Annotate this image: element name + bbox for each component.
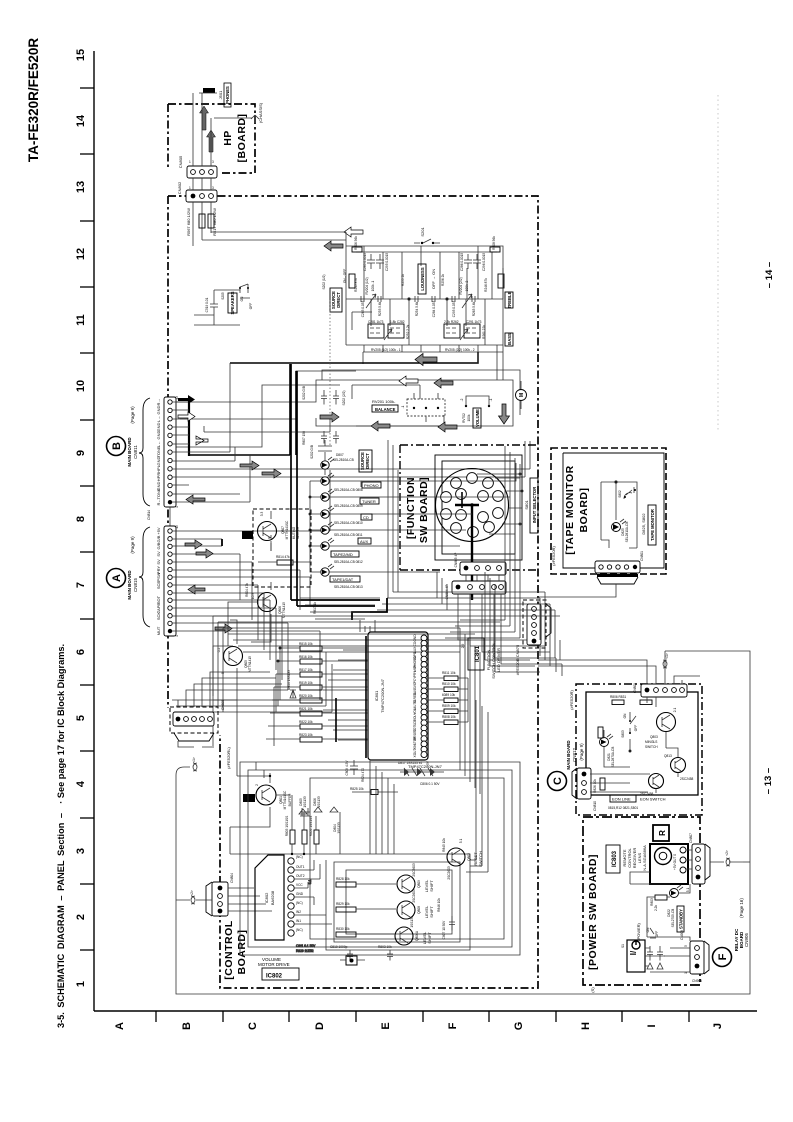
svg-text:C286 0.0015: C286 0.0015 xyxy=(460,253,464,271)
svg-text:CD: CD xyxy=(363,515,369,520)
R803 resistor xyxy=(650,895,667,911)
dotted net line vertical xyxy=(329,300,331,446)
svg-text:CN905: CN905 xyxy=(744,933,749,948)
svg-text:PHONES: PHONES xyxy=(225,86,230,104)
svg-text:S201: S201 xyxy=(420,227,425,237)
wire tape down xyxy=(538,584,616,597)
svg-text:SEL2810A-CB 0811: SEL2810A-CB 0811 xyxy=(334,533,363,537)
arrow tone left 1 xyxy=(344,227,363,237)
svg-text:1: 1 xyxy=(189,160,191,164)
wire bundle right verticals xyxy=(213,440,560,794)
fat bus line B xyxy=(188,400,190,456)
svg-text:C293 0.033: C293 0.033 xyxy=(452,301,456,318)
svg-text:S202 G/B: S202 G/B xyxy=(302,386,306,400)
switch S201 tone xyxy=(414,227,440,245)
grid ticks left xyxy=(80,88,94,950)
connector CN805 xyxy=(178,155,217,178)
brace B xyxy=(139,398,150,506)
svg-text:STOP: STOP xyxy=(413,737,417,746)
label AUX xyxy=(334,533,371,544)
IC801 pin names xyxy=(413,634,430,767)
capacitor C285 C295 group left xyxy=(363,253,389,271)
svg-text:SCK: SCK xyxy=(156,612,161,621)
board label CONTROL BOARD xyxy=(223,920,248,979)
connector block C top xyxy=(633,683,687,697)
svg-text:R208 56k: R208 56k xyxy=(492,236,496,250)
mid bus caps resistors xyxy=(361,296,475,302)
svg-text:R830 10k: R830 10k xyxy=(336,927,350,931)
svg-text:R810 10k: R810 10k xyxy=(442,682,456,686)
svg-text:C295 0.0015: C295 0.0015 xyxy=(385,253,389,271)
grid axis horizontal line xyxy=(94,1010,757,1012)
svg-text:-2: -2 xyxy=(460,398,464,401)
svg-text:10.9: 10.9 xyxy=(251,593,255,599)
hp board outline xyxy=(168,104,255,173)
resistor R567 R517 labels xyxy=(186,208,217,236)
input selector label xyxy=(524,478,538,533)
svg-text:TAPE: TAPE xyxy=(156,603,161,613)
svg-text:(CHASSIS): (CHASSIS) xyxy=(258,102,263,123)
IC801 boxed label xyxy=(468,638,501,679)
connector CN815 on border xyxy=(515,600,551,675)
transistor LVL1 xyxy=(397,863,434,893)
svg-text:R817 10k: R817 10k xyxy=(299,668,313,672)
svg-text:TAPE MONITOR: TAPE MONITOR xyxy=(650,509,655,541)
svg-text:-1: -1 xyxy=(401,405,405,408)
transistor LVL3 xyxy=(395,916,432,945)
svg-text:AUX: AUX xyxy=(360,539,369,544)
svg-text:SV: SV xyxy=(156,559,161,565)
svg-text:STANDBY: STANDBY xyxy=(679,909,684,929)
svg-text:R828 10k: R828 10k xyxy=(336,877,350,881)
wires IC801 left pins xyxy=(320,650,368,740)
svg-text:<2>: <2> xyxy=(190,890,194,896)
svg-text:CN814: CN814 xyxy=(147,510,151,520)
arrow bus left pair xyxy=(399,376,418,386)
svg-text:OUT2: OUT2 xyxy=(296,874,305,878)
label TUNER xyxy=(334,498,379,508)
connector CN814 small xyxy=(147,507,170,526)
IC802 body xyxy=(255,855,284,940)
transistor Q802 reset xyxy=(442,838,483,880)
transistor Q806 xyxy=(251,582,286,622)
connector CN808 dashed xyxy=(170,700,231,769)
svg-text:(S): (S) xyxy=(590,987,595,993)
svg-text:S1: S1 xyxy=(621,944,625,948)
svg-text:3-5. SCHEMATIC DIAGRAM – PANEL: 3-5. SCHEMATIC DIAGRAM – PANEL Section –… xyxy=(56,644,66,1028)
svg-text:S801: S801 xyxy=(524,500,529,510)
EON labels bottom xyxy=(608,795,666,810)
svg-text:Q813: Q813 xyxy=(664,754,672,758)
tape monitor inner board xyxy=(563,453,664,568)
svg-text:[CONTROL: [CONTROL xyxy=(223,920,235,979)
svg-text:R808 10k: R808 10k xyxy=(442,715,456,719)
svg-text:SOT: SOT xyxy=(156,595,161,604)
svg-text:2.9: 2.9 xyxy=(461,644,465,649)
IC802 pin labels xyxy=(296,855,305,932)
svg-text:R817 1k: R817 1k xyxy=(313,602,317,614)
svg-text:C284 0.033: C284 0.033 xyxy=(432,301,436,318)
svg-text:10: 10 xyxy=(75,380,87,392)
svg-text:12: 12 xyxy=(75,248,87,260)
svg-text:RV205 (1/2) 100k - 1: RV205 (1/2) 100k - 1 xyxy=(371,348,401,352)
tape monitor label box xyxy=(641,505,656,545)
svg-text:R845 10k: R845 10k xyxy=(442,838,446,852)
arrow B HPL xyxy=(240,461,259,470)
svg-text:VOLUME: VOLUME xyxy=(475,409,480,427)
svg-text:R829 10k: R829 10k xyxy=(336,902,350,906)
wires CN808 up xyxy=(178,672,288,747)
C809 cap xyxy=(345,760,365,782)
LED column D808-D813 xyxy=(321,473,334,576)
svg-text:SEL2810A-CB: SEL2810A-CB xyxy=(625,522,629,543)
svg-text:SEL2870A-CB: SEL2870A-CB xyxy=(611,747,615,768)
pot RV204 treble labels xyxy=(354,274,488,295)
svg-text:ON: ON xyxy=(240,296,244,301)
svg-text:R254 5.6k: R254 5.6k xyxy=(415,301,419,316)
svg-text:IC802: IC802 xyxy=(266,974,283,980)
svg-text:1SS133: 1SS133 xyxy=(410,916,414,928)
svg-text:R816 10k: R816 10k xyxy=(299,655,313,659)
svg-text:MTTN141SC: MTTN141SC xyxy=(283,790,287,809)
svg-text:SV: SV xyxy=(156,551,161,557)
svg-text:CD: CD xyxy=(413,641,417,646)
svg-text:E: E xyxy=(380,1022,392,1029)
power sw outline xyxy=(583,817,700,985)
svg-text:S803: S803 xyxy=(621,730,625,738)
speakers switch S205 xyxy=(221,284,253,315)
svg-text:C283 0.033: C283 0.033 xyxy=(361,301,365,318)
arrow A 4 xyxy=(215,624,232,633)
svg-text:1: 1 xyxy=(175,506,179,508)
grid letters xyxy=(114,1022,724,1031)
wire bus horizontals xyxy=(172,268,520,455)
capacitor C519 xyxy=(194,290,240,325)
svg-text:TONE: TONE xyxy=(156,446,161,457)
wires from A pins xyxy=(172,470,330,700)
source direct label 2 xyxy=(333,450,372,472)
svg-text:ON: ON xyxy=(623,713,627,718)
transistors 2SC2458 pair xyxy=(640,754,694,796)
IC801 right resistor ladder xyxy=(427,644,468,725)
svg-text:BALANCE: BALANCE xyxy=(375,407,396,412)
svg-text:CN812: CN812 xyxy=(572,748,577,763)
svg-text:F: F xyxy=(447,1022,459,1029)
svg-text:MUT: MUT xyxy=(156,626,161,635)
source direct label top xyxy=(322,269,347,312)
svg-text:CN815: CN815 xyxy=(133,578,138,593)
wire loop left <1><2> xyxy=(176,651,750,994)
grid axis vertical line xyxy=(93,51,95,1011)
svg-text:VCC: VCC xyxy=(296,883,303,887)
svg-text:R822 10k: R822 10k xyxy=(299,720,313,724)
svg-text:5.1: 5.1 xyxy=(459,839,463,844)
treble label xyxy=(505,291,513,308)
LED wires right to boxes xyxy=(329,463,516,572)
svg-text:MON: MON xyxy=(413,664,417,672)
svg-text:SEL2810A-CB 0812: SEL2810A-CB 0812 xyxy=(334,560,363,564)
svg-text:RV205 (2/2) 100k - 2: RV205 (2/2) 100k - 2 xyxy=(445,348,475,352)
svg-text:1.8k C282: 1.8k C282 xyxy=(390,320,405,324)
svg-text:11: 11 xyxy=(75,314,87,326)
main board cn812 text xyxy=(566,740,584,770)
svg-text:C291 1k73: C291 1k73 xyxy=(466,320,482,324)
junction box symbol xyxy=(340,956,365,965)
link mark 2 xyxy=(190,890,195,904)
svg-text:BOARD]: BOARD] xyxy=(236,930,248,975)
svg-text:A: A xyxy=(111,574,123,582)
svg-text:HPR: HPR xyxy=(156,473,161,482)
svg-text:IC801: IC801 xyxy=(374,690,379,701)
circled F xyxy=(713,948,732,967)
svg-text:RV702: RV702 xyxy=(462,413,466,423)
IC803 desc text xyxy=(622,845,647,871)
wire tone to hp xyxy=(202,232,346,246)
board label FUNCTION SW BOARD xyxy=(405,477,430,543)
svg-text:OFF → ON: OFF → ON xyxy=(431,269,436,289)
arrow bus lower right xyxy=(438,422,457,432)
svg-text:IN1: IN1 xyxy=(296,919,301,923)
bass resistor row right xyxy=(444,320,486,339)
svg-text:C281 1k73: C281 1k73 xyxy=(368,320,384,324)
svg-text:R255 2k: R255 2k xyxy=(401,274,405,286)
signal arrows hp xyxy=(200,106,216,152)
arrow down near volume xyxy=(499,404,510,424)
arrow tone left 2 xyxy=(324,241,343,251)
pin labels A xyxy=(156,527,161,635)
svg-text:2: 2 xyxy=(255,784,259,786)
svg-text:R→: R→ xyxy=(156,399,161,406)
svg-text:CN805 4P: CN805 4P xyxy=(454,553,458,568)
svg-text:C806 0.1 50V: C806 0.1 50V xyxy=(420,782,440,786)
svg-text:H: H xyxy=(580,1022,592,1030)
svg-text:(NC): (NC) xyxy=(296,855,303,859)
wires from B pins xyxy=(172,363,530,502)
svg-text:(Page 9): (Page 9) xyxy=(130,406,135,424)
wire bundle to IC xyxy=(300,598,380,632)
wire tone-bus verticals xyxy=(364,268,503,380)
brace A xyxy=(139,527,150,627)
arrow bus right big xyxy=(415,354,437,366)
svg-text:RV204 (2/2): RV204 (2/2) xyxy=(459,277,463,294)
svg-text:7: 7 xyxy=(75,582,87,588)
svg-text:15: 15 xyxy=(175,525,179,529)
arrow B HPR xyxy=(262,469,281,478)
caps pair bus 1 xyxy=(321,390,339,405)
svg-text:D825, S802: D825, S802 xyxy=(641,513,646,535)
svg-text:-1: -1 xyxy=(489,398,493,401)
svg-text:Q803: Q803 xyxy=(650,735,658,739)
svg-text:+5V: +5V xyxy=(156,527,161,535)
svg-text:R807 150: R807 150 xyxy=(302,431,306,445)
tape circuit wires xyxy=(601,481,637,548)
svg-text:IC801: IC801 xyxy=(475,645,481,662)
rotary switch S801 outer rects xyxy=(435,455,522,560)
pot RV205 bass labels xyxy=(371,348,475,352)
svg-text:EON SWITCH: EON SWITCH xyxy=(640,797,666,802)
svg-text:15: 15 xyxy=(75,49,87,61)
wires left mid column xyxy=(213,541,271,746)
svg-text:3.3: 3.3 xyxy=(260,512,264,517)
transistor EON switch xyxy=(645,708,677,749)
svg-text:RV201 100k-: RV201 100k- xyxy=(372,399,396,404)
svg-text:R811 10k: R811 10k xyxy=(442,671,456,675)
svg-text:G/B: G/B xyxy=(156,535,161,542)
svg-text:TUNER: TUNER xyxy=(362,499,376,504)
arrow bus lowest xyxy=(320,412,339,422)
svg-text:MTTN1415: MTTN1415 xyxy=(248,656,252,672)
svg-text:LED DRIVER: LED DRIVER xyxy=(496,648,501,672)
connector CN805 4P below function board xyxy=(454,553,506,575)
grid numbers xyxy=(75,49,87,987)
svg-text:Q802: Q802 xyxy=(467,853,471,861)
svg-text:9: 9 xyxy=(75,450,87,456)
svg-text:R819 10k: R819 10k xyxy=(299,681,313,685)
svg-text:D: D xyxy=(314,1022,326,1030)
svg-text:6: 6 xyxy=(75,649,87,655)
svg-text:6089 10k: 6089 10k xyxy=(442,693,456,697)
LED D821 xyxy=(600,734,616,767)
svg-text:J: J xyxy=(712,1023,724,1029)
HB1 boxed label xyxy=(242,531,253,539)
arrow A 3 xyxy=(188,585,205,594)
svg-text:TMP47C200N-JN7: TMP47C200N-JN7 xyxy=(408,764,443,769)
resistor R208 right xyxy=(490,236,500,252)
wires below function connectors xyxy=(458,575,562,676)
svg-text:C: C xyxy=(247,1022,259,1030)
svg-text:CN905: CN905 xyxy=(692,979,702,983)
bold bus verticals mid xyxy=(291,364,297,606)
svg-text:OFF: OFF xyxy=(634,725,638,731)
connector power bottom xyxy=(680,930,709,983)
svg-text:(Page 9): (Page 9) xyxy=(579,743,584,761)
svg-text:R567 680 1/2W: R567 680 1/2W xyxy=(186,208,191,236)
arrow A 1 xyxy=(185,540,202,549)
label PHONO xyxy=(334,482,381,492)
circled B xyxy=(107,437,126,456)
svg-text:C807 10 50V: C807 10 50V xyxy=(442,920,446,939)
svg-text:LOUDNESS: LOUDNESS xyxy=(420,267,425,290)
R846 C807 bits xyxy=(437,898,455,940)
svg-text:M: M xyxy=(519,393,525,397)
svg-text:R246 87k: R246 87k xyxy=(484,278,488,292)
svg-text:2SC2603: 2SC2603 xyxy=(412,863,416,877)
caps bottom row xyxy=(330,945,393,961)
svg-text:14: 14 xyxy=(75,114,87,127)
diodes D805 D806 xyxy=(299,796,341,834)
grid ticks bottom xyxy=(156,1011,689,1022)
svg-text:2SC2603: 2SC2603 xyxy=(447,866,451,880)
svg-text:R804 47k: R804 47k xyxy=(245,583,249,597)
labels bus xyxy=(302,386,346,445)
svg-text:0815,R12 0821,S801: 0815,R12 0821,S801 xyxy=(608,806,638,810)
svg-text:OUT1: OUT1 xyxy=(296,865,305,869)
svg-text:3: 3 xyxy=(75,848,87,854)
svg-text:R809 10k: R809 10k xyxy=(442,704,456,708)
svg-text:(POWER): (POWER) xyxy=(636,922,641,940)
svg-text:B: B xyxy=(181,1022,193,1030)
svg-text:R206 56k: R206 56k xyxy=(354,236,358,250)
svg-text:GND: GND xyxy=(156,456,161,465)
svg-text:R252 2.2k: R252 2.2k xyxy=(406,324,410,339)
svg-text:S202 G/B: S202 G/B xyxy=(310,445,314,459)
svg-text:13: 13 xyxy=(75,181,87,193)
main board cn811 text xyxy=(127,406,138,467)
svg-text:D814 1SS133: D814 1SS133 xyxy=(287,670,291,690)
tape monitor outline xyxy=(551,448,666,574)
caps pair bus 2 xyxy=(321,431,339,444)
svg-text:R846 10k: R846 10k xyxy=(437,898,441,912)
link mark 2 right xyxy=(710,850,750,866)
svg-text:CN809: CN809 xyxy=(633,683,637,693)
svg-text:Q806A: Q806A xyxy=(415,930,419,941)
svg-text:+5V OUT 0: +5V OUT 0 xyxy=(673,854,677,870)
wire tone outer loop xyxy=(346,246,503,345)
bass resistor row left xyxy=(368,320,410,339)
svg-text:CN810: CN810 xyxy=(593,801,597,811)
wires IC802 right xyxy=(294,860,332,953)
svg-text:IC803: IC803 xyxy=(612,850,618,867)
svg-text:MOTOR DRIVE: MOTOR DRIVE xyxy=(258,962,290,967)
svg-text:SHIFT: SHIFT xyxy=(429,906,434,918)
svg-text:C296 0.0015: C296 0.0015 xyxy=(482,253,486,271)
MAIN BORDER dash-dot xyxy=(168,196,538,988)
svg-text:TMP47C200N-JN7: TMP47C200N-JN7 xyxy=(380,678,385,713)
svg-text:INPUT SELECTOR: INPUT SELECTOR xyxy=(532,487,537,523)
svg-text:S802: S802 xyxy=(618,490,622,498)
R805 R806 resistors xyxy=(285,816,319,844)
svg-text:R256 2k: R256 2k xyxy=(441,274,445,286)
svg-text:SHIFT: SHIFT xyxy=(429,880,434,892)
bold feed lines xyxy=(336,636,366,758)
svg-text:2SC2603: 2SC2603 xyxy=(412,889,416,903)
transistor Q807 muting xyxy=(258,511,301,551)
svg-text:– 14 –: – 14 – xyxy=(764,262,775,288)
svg-text:(NC): (NC) xyxy=(296,928,303,932)
svg-text:8: 8 xyxy=(75,516,87,522)
remote receiver module xyxy=(650,844,688,884)
wires buffer area xyxy=(230,746,340,854)
boxed R xyxy=(653,825,669,841)
svg-text:SEL2705-CB: SEL2705-CB xyxy=(671,909,675,928)
svg-text:SW BOARD]: SW BOARD] xyxy=(418,477,430,543)
svg-text:TREBLE: TREBLE xyxy=(507,291,512,308)
svg-text:R803 10k: R803 10k xyxy=(378,945,392,949)
svg-text:MAIN BOARD: MAIN BOARD xyxy=(566,740,571,770)
transistor LVL2 xyxy=(397,889,434,919)
IC802 labels xyxy=(258,957,299,980)
caps power xyxy=(645,946,665,972)
phones jack J501 xyxy=(199,83,231,107)
link mark 1 right xyxy=(663,653,669,684)
LED D807 top xyxy=(310,440,334,475)
connector CN804 xyxy=(196,873,272,916)
label TAPE2/MD xyxy=(331,551,363,564)
arrow bus lower left xyxy=(371,421,390,431)
IC803 boxed label xyxy=(606,845,620,873)
svg-text:H1: H1 xyxy=(244,534,250,539)
svg-text:PSW: PSW xyxy=(156,572,161,581)
svg-text:S202 (1/2): S202 (1/2) xyxy=(322,275,326,290)
svg-text:(#FE520RL): (#FE520RL) xyxy=(226,746,231,768)
svg-text:R821 10k: R821 10k xyxy=(299,707,313,711)
svg-text:<1>: <1> xyxy=(665,653,669,659)
svg-text:MTTN1415: MTTN1415 xyxy=(282,602,286,618)
LED D825 xyxy=(612,519,630,542)
dot junctions xyxy=(269,775,305,855)
relay dc board text xyxy=(734,898,749,952)
svg-text:SEL2810A-CB: SEL2810A-CB xyxy=(333,458,354,462)
